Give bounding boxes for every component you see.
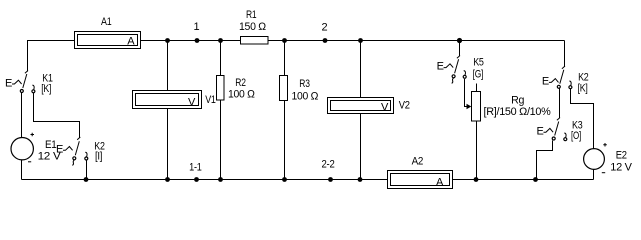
wire K5 drop from top xyxy=(459,41,461,56)
switch K3 xyxy=(544,118,567,141)
svg-text:[G]: [G] xyxy=(473,68,484,80)
node dot top V2 xyxy=(358,38,363,43)
svg-text:12 V: 12 V xyxy=(610,162,632,174)
svg-text:100 Ω: 100 Ω xyxy=(292,91,319,103)
node 1-1 dot xyxy=(194,177,199,182)
node dot top K5 junction xyxy=(457,38,462,43)
voltmeter V1 xyxy=(133,91,202,109)
node dot top V1 xyxy=(165,38,170,43)
node dot top R2 xyxy=(218,38,223,43)
node dot bottom K2 xyxy=(84,177,89,182)
switch K5 xyxy=(444,56,467,84)
svg-text:V1: V1 xyxy=(205,94,216,106)
wire top-left vertical drop to K1 xyxy=(27,41,29,72)
wire K2 right throw down to bottom xyxy=(86,161,88,180)
node 2 dot xyxy=(323,38,328,43)
svg-text:A1: A1 xyxy=(101,16,112,28)
svg-text:E: E xyxy=(542,76,549,88)
voltmeter V2 xyxy=(328,98,394,114)
wire K1 left throw down to E1 xyxy=(21,93,23,180)
svg-text:[K]: [K] xyxy=(578,82,588,94)
svg-text:R3: R3 xyxy=(299,78,310,90)
svg-text:[R]/150 Ω/10%: [R]/150 Ω/10% xyxy=(484,106,552,118)
rheostat Rg wiper arrow xyxy=(467,104,472,110)
svg-text:2: 2 xyxy=(321,22,327,34)
source E2 xyxy=(584,143,607,173)
svg-text:[K]: [K] xyxy=(41,83,51,95)
svg-text:E1: E1 xyxy=(45,139,57,151)
resistor R2 xyxy=(217,76,225,101)
node dot bottom K3 xyxy=(533,177,538,182)
svg-text:1-1: 1-1 xyxy=(189,162,202,174)
switch K2 left xyxy=(63,137,88,165)
wire V1 branch vertical xyxy=(167,41,169,180)
wire top-right vertical drop to K2 xyxy=(564,41,566,68)
ammeter A1 xyxy=(75,32,141,49)
svg-text:150 Ω: 150 Ω xyxy=(239,21,266,33)
svg-text:[I]: [I] xyxy=(95,150,102,162)
switch K1 xyxy=(12,71,35,93)
svg-text:100 Ω: 100 Ω xyxy=(228,89,255,101)
svg-text:R2: R2 xyxy=(235,77,246,89)
wire K3 left throw down to bottom xyxy=(537,141,553,180)
wire bottom horizontal xyxy=(22,179,594,181)
node 1 dot xyxy=(195,38,200,43)
switch K2 right xyxy=(549,66,572,89)
node dot bottom V2 xyxy=(358,177,363,182)
node dot top R3 xyxy=(282,38,287,43)
ammeter A2 xyxy=(388,171,453,189)
svg-text:V: V xyxy=(188,97,196,109)
wire Rg top stub xyxy=(476,84,478,92)
svg-text:V: V xyxy=(381,102,389,114)
resistor R1 xyxy=(241,37,269,45)
svg-text:R1: R1 xyxy=(246,9,257,21)
svg-text:Rg: Rg xyxy=(511,95,524,107)
svg-text:E: E xyxy=(537,125,544,137)
wire K1 right throw down-right to K2 xyxy=(34,93,80,138)
svg-text:A: A xyxy=(436,177,444,189)
wire K2 left throw down to K3 xyxy=(559,89,561,118)
wire K2 right throw to E2 xyxy=(571,89,594,180)
svg-text:K5: K5 xyxy=(473,56,484,68)
wire V2 branch vertical xyxy=(360,41,362,180)
svg-text:E: E xyxy=(56,143,63,155)
svg-text:E: E xyxy=(5,77,12,89)
resistor R3 xyxy=(280,76,288,101)
node dot bottom V1 xyxy=(165,177,170,182)
svg-text:[O]: [O] xyxy=(571,130,581,142)
svg-text:A2: A2 xyxy=(412,155,424,167)
node 2-2 dot xyxy=(328,177,333,182)
svg-text:E2: E2 xyxy=(616,149,627,161)
rheostat Rg xyxy=(472,92,481,122)
svg-text:E: E xyxy=(437,61,444,73)
node dot bottom R3 xyxy=(282,177,287,182)
wire R3 branch vertical xyxy=(284,41,286,180)
wire R2 branch vertical xyxy=(220,41,222,180)
wire K5 right throw to Rg wiper xyxy=(465,79,468,107)
svg-text:A: A xyxy=(127,36,135,48)
source E1 xyxy=(11,133,34,162)
svg-text:2-2: 2-2 xyxy=(322,159,335,171)
wire Rg bottom xyxy=(476,121,478,180)
wire top horizontal xyxy=(27,40,565,42)
node dot bottom Rg xyxy=(474,177,479,182)
node dot bottom R2 xyxy=(218,177,223,182)
svg-text:V2: V2 xyxy=(399,99,410,111)
svg-text:1: 1 xyxy=(193,21,199,33)
